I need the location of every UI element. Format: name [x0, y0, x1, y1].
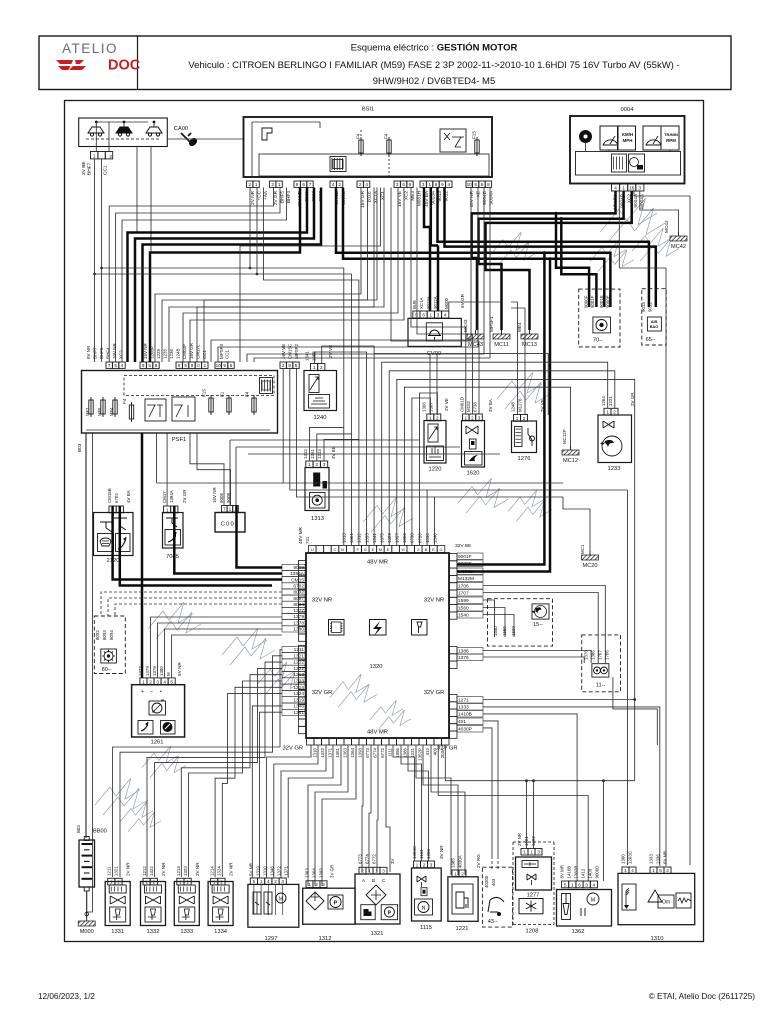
wire battery to ground: [86, 891, 88, 917]
cluster gauge icons: [600, 126, 618, 150]
svg-text:1: 1: [255, 182, 258, 187]
svg-text:2: 2: [153, 880, 156, 885]
svg-text:MC42: MC42: [664, 220, 669, 233]
wire bundle 40V BA to 65--: [438, 188, 649, 308]
svg-text:1706: 1706: [458, 584, 469, 590]
svg-text:1: 1: [110, 880, 113, 885]
svg-text:8: 8: [178, 363, 181, 368]
svg-text:1229: 1229: [156, 348, 161, 359]
fuse box PSF1: [82, 371, 278, 434]
svg-text:1384A: 1384A: [169, 490, 174, 503]
wire h353 to 548: [374, 354, 548, 415]
svg-text:1363: 1363: [342, 747, 347, 757]
svg-text:1: 1: [606, 410, 609, 415]
svg-text:1376: 1376: [458, 655, 469, 661]
svg-text:6738: 6738: [473, 402, 478, 412]
svg-text:1334: 1334: [214, 929, 228, 935]
svg-text:4: 4: [444, 313, 447, 318]
wire right bus 666: [665, 268, 667, 866]
svg-text:8092: 8092: [293, 590, 304, 596]
svg-text:MC12P: MC12P: [562, 429, 567, 444]
ignition switch CA00: [79, 118, 168, 147]
wire distribution 780 with junctions: [445, 745, 634, 781]
svg-text:2V NR: 2V NR: [126, 862, 131, 876]
svg-text:CA00: CA00: [174, 126, 188, 132]
diagram frame: [65, 101, 704, 942]
svg-text:403: 403: [491, 878, 496, 886]
svg-text:1393: 1393: [357, 747, 362, 757]
svg-text:6772: 6772: [380, 747, 385, 757]
svg-text:2: 2: [523, 416, 526, 421]
svg-text:6: 6: [422, 313, 425, 318]
svg-text:11--: 11--: [596, 683, 606, 689]
svg-text:1371: 1371: [327, 747, 332, 757]
svg-text:E: E: [387, 547, 390, 552]
svg-text:1412: 1412: [581, 868, 586, 878]
wires ECU to injectors: [113, 650, 282, 878]
svg-text:1203C: 1203C: [628, 851, 633, 864]
svg-text:1: 1: [166, 507, 169, 512]
svg-text:2: 2: [274, 879, 277, 884]
svg-text:1381: 1381: [293, 710, 304, 716]
svg-text:3V BA: 3V BA: [488, 399, 493, 412]
svg-text:1323: 1323: [293, 679, 304, 685]
svg-text:B03: B03: [76, 825, 81, 833]
svg-text:1321: 1321: [114, 866, 119, 876]
svg-text:9001F: 9001F: [590, 295, 595, 308]
ECU icons: [329, 620, 345, 636]
svg-text:6V GR: 6V GR: [460, 293, 465, 308]
svg-text:F4: F4: [356, 133, 361, 139]
svg-text:F4: F4: [122, 398, 127, 404]
svg-text:48V MR: 48V MR: [298, 526, 303, 544]
svg-text:6774: 6774: [372, 747, 377, 757]
svg-text:1261: 1261: [151, 740, 164, 746]
svg-text:9008: 9008: [293, 565, 304, 571]
svg-text:3: 3: [323, 462, 326, 467]
wire 9008 thick to C001: [237, 506, 283, 568]
svg-text:1540: 1540: [493, 626, 498, 636]
svg-text:1707: 1707: [458, 591, 469, 597]
PSF1 shunt: [260, 378, 273, 394]
svg-text:U: U: [311, 547, 314, 552]
wire mid nest long verticals: [426, 490, 428, 546]
svg-text:CC1: CC1: [103, 165, 109, 175]
wire right bus 627: [627, 490, 629, 865]
svg-text:2: 2: [320, 365, 323, 370]
svg-text:1310: 1310: [263, 866, 268, 876]
svg-text:1214: 1214: [210, 866, 215, 876]
svg-text:9000F: 9000F: [458, 561, 472, 567]
svg-text:16V VE: 16V VE: [281, 344, 286, 359]
svg-text:12/06/2023, 1/2: 12/06/2023, 1/2: [38, 992, 95, 1001]
svg-text:4: 4: [593, 882, 596, 887]
svg-text:3V NR: 3V NR: [439, 845, 444, 859]
svg-text:MPSF2: MPSF2: [294, 343, 299, 359]
alternator 1310: [618, 873, 695, 924]
svg-text:1385: 1385: [451, 858, 456, 868]
svg-text:F4: F4: [384, 133, 389, 139]
svg-text:2: 2: [613, 410, 616, 415]
svg-text:1366: 1366: [422, 402, 427, 412]
sensor 1240: [304, 371, 337, 411]
svg-text:8094: 8094: [109, 630, 114, 640]
svg-text:1367: 1367: [429, 402, 434, 412]
svg-text:MC42: MC42: [671, 244, 686, 250]
svg-text:1: 1: [622, 186, 625, 191]
svg-text:F15: F15: [202, 389, 207, 397]
svg-text:+: +: [141, 689, 144, 695]
wire 1384A thick to 7045: [174, 506, 282, 574]
wire CA00 to BSI: [167, 138, 243, 140]
svg-text:9013A: 9013A: [426, 296, 431, 309]
wire 6702 thick to 2120: [120, 506, 272, 586]
svg-text:10V NR: 10V NR: [112, 342, 117, 359]
wire mid distribution: [230, 439, 420, 441]
svg-text:3: 3: [478, 415, 481, 420]
svg-text:8: 8: [409, 182, 412, 187]
svg-text:1364: 1364: [350, 747, 355, 757]
svg-text:1377: 1377: [138, 666, 143, 676]
svg-text:4: 4: [631, 868, 634, 873]
wire long left verticals: [85, 433, 87, 838]
wire CM15 thick to 2120: [113, 506, 282, 580]
svg-text:1: 1: [652, 868, 655, 873]
relay 1276: [512, 421, 537, 453]
svg-text:B: B: [372, 878, 375, 883]
svg-text:5: 5: [295, 363, 298, 368]
svg-text:1363: 1363: [305, 868, 310, 878]
svg-text:CM01D: CM01D: [460, 397, 465, 412]
buzzer CV00: [408, 318, 461, 346]
fuse F15 BSI: [475, 140, 479, 153]
wire 1410B to 1362: [483, 714, 577, 881]
svg-text:2V VE: 2V VE: [540, 399, 545, 412]
svg-text:1560: 1560: [458, 606, 469, 612]
svg-text:8: 8: [487, 182, 490, 187]
svg-text:1212: 1212: [142, 866, 147, 876]
svg-text:MC1: MC1: [580, 544, 585, 554]
wires ECU bottom fan: [267, 745, 311, 878]
svg-text:9000D: 9000D: [595, 866, 600, 879]
svg-text:MPSF3: MPSF3: [219, 343, 224, 359]
svg-text:1: 1: [624, 868, 627, 873]
svg-text:1: 1: [454, 871, 457, 876]
svg-text:2: 2: [117, 880, 120, 885]
svg-text:1: 1: [428, 182, 431, 187]
svg-text:1410B: 1410B: [458, 712, 472, 718]
svg-text:1382R: 1382R: [574, 866, 579, 879]
svg-text:5: 5: [184, 363, 187, 368]
svg-text:XC2: XC2: [118, 350, 123, 359]
wire C001 up: [190, 433, 224, 506]
svg-text:1248: 1248: [511, 402, 516, 412]
svg-text:1111: 1111: [387, 747, 392, 756]
connector C001: [215, 513, 245, 533]
wire nest crossing: [240, 188, 381, 363]
compressor 1277: [516, 857, 552, 890]
svg-text:7: 7: [309, 182, 312, 187]
svg-text:B03: B03: [77, 443, 82, 452]
svg-text:1364: 1364: [312, 868, 317, 878]
svg-text:1: 1: [278, 182, 281, 187]
PSF1 inner dashed: [124, 376, 274, 396]
svg-text:1362: 1362: [572, 929, 585, 935]
wire bundle 9001E 9000E to ECU and 70--: [336, 188, 610, 308]
svg-text:16: 16: [629, 186, 635, 191]
wire PSF1 to 7045: [166, 433, 168, 506]
svg-text:0004: 0004: [621, 107, 635, 113]
wire 9013A to CV00: [437, 246, 440, 312]
svg-text:ATELIO: ATELIO: [62, 41, 118, 56]
svg-text:2V GR: 2V GR: [630, 392, 635, 406]
svg-text:1: 1: [465, 415, 468, 420]
svg-text:8V NR: 8V NR: [86, 345, 91, 359]
svg-text:1376: 1376: [584, 650, 589, 660]
key symbol: [181, 133, 191, 142]
svg-text:1599: 1599: [458, 598, 469, 604]
svg-text:–: –: [150, 689, 153, 695]
svg-text:1409: 1409: [588, 868, 593, 878]
ground MC42: [678, 232, 680, 236]
svg-text:2V VE: 2V VE: [328, 345, 333, 358]
svg-text:3: 3: [382, 869, 385, 874]
svg-text:1233: 1233: [608, 466, 621, 472]
svg-text:ME3: ME3: [410, 191, 415, 201]
wire CV00 M000: [449, 302, 502, 311]
svg-text:70--: 70--: [593, 338, 603, 344]
svg-text:16V GR: 16V GR: [360, 190, 365, 207]
svg-text:6: 6: [402, 182, 405, 187]
wire stub7 to right vertical: [397, 379, 635, 780]
svg-text:1346: 1346: [293, 704, 304, 710]
svg-text:401: 401: [458, 719, 466, 725]
svg-text:9012A: 9012A: [433, 296, 438, 309]
svg-text:9012: 9012: [648, 302, 653, 312]
svg-text:6702: 6702: [293, 584, 304, 590]
BSI1 shunt: [330, 157, 346, 172]
wire distribution 795: [438, 745, 588, 881]
svg-text:1550: 1550: [502, 626, 507, 636]
svg-text:1310: 1310: [312, 747, 317, 757]
wire 1233 pin2 via stub6: [389, 371, 615, 546]
svg-text:9000F: 9000F: [584, 295, 589, 308]
wire bundle 0004 to grounds: [472, 191, 616, 330]
svg-text:1379: 1379: [293, 614, 304, 620]
svg-text:CM03P: CM03P: [182, 344, 187, 359]
svg-text:H: H: [402, 547, 405, 552]
svg-text:412: 412: [425, 747, 430, 755]
svg-text:M: M: [166, 672, 171, 676]
svg-text:F1: F1: [220, 391, 225, 397]
svg-text:2: 2: [315, 882, 318, 887]
svg-text:KM/H: KM/H: [622, 132, 633, 137]
svg-text:CM15B: CM15B: [107, 488, 112, 503]
svg-text:1312: 1312: [319, 936, 332, 942]
svg-text:2: 2: [271, 182, 274, 187]
svg-text:F15: F15: [472, 131, 477, 139]
svg-text:XC1A: XC1A: [419, 297, 424, 309]
svg-text:1: 1: [313, 365, 316, 370]
svg-text:1319: 1319: [293, 697, 304, 703]
svg-text:203A: 203A: [440, 748, 445, 758]
svg-text:1271: 1271: [458, 698, 469, 704]
svg-text:5: 5: [564, 882, 567, 887]
svg-text:P: P: [388, 910, 392, 916]
svg-text:M004A: M004A: [640, 193, 645, 209]
fuse F4 PSF1 a: [129, 405, 133, 419]
svg-text:32V GR: 32V GR: [424, 690, 445, 696]
svg-text:16V NR: 16V NR: [143, 342, 148, 359]
svg-text:1: 1: [213, 880, 216, 885]
svg-text:1707: 1707: [598, 650, 603, 660]
svg-text:2: 2: [220, 880, 223, 885]
svg-text:3V BE: 3V BE: [331, 446, 336, 459]
svg-text:8V MR: 8V MR: [560, 865, 565, 878]
svg-text:1332: 1332: [147, 929, 160, 935]
svg-text:8093: 8093: [102, 630, 107, 640]
svg-text:G: G: [439, 547, 442, 552]
svg-text:1221: 1221: [608, 396, 613, 406]
svg-text:40200: 40200: [484, 875, 489, 888]
wires ECU to 1297: [252, 706, 282, 878]
engine ECU 1320: [306, 553, 449, 738]
wire 1233 pin1 via stub5: [382, 362, 608, 545]
ECU right pin strip: [450, 554, 458, 561]
svg-text:•: •: [160, 689, 162, 695]
svg-text:1361: 1361: [335, 747, 340, 757]
svg-text:1: 1: [308, 882, 311, 887]
svg-text:2: 2: [361, 869, 364, 874]
svg-text:32V NR: 32V NR: [424, 598, 444, 604]
fuse MF7: [89, 400, 93, 414]
CV00 pins: [413, 311, 420, 318]
svg-text:7: 7: [223, 507, 226, 512]
svg-text:2: 2: [461, 871, 464, 876]
svg-text:1410B: 1410B: [567, 866, 572, 879]
svg-text:7: 7: [108, 363, 111, 368]
svg-text:4: 4: [332, 182, 335, 187]
svg-text:1377: 1377: [293, 608, 304, 614]
svg-text:TR/MIN: TR/MIN: [664, 132, 678, 137]
svg-text:2: 2: [359, 182, 362, 187]
svg-text:1386: 1386: [402, 747, 407, 757]
svg-text:1356: 1356: [426, 849, 431, 859]
injector 1332: [141, 882, 166, 926]
snowflake 1208: [519, 899, 543, 914]
svg-text:9: 9: [142, 363, 145, 368]
wires ECU right to 15--: [483, 600, 495, 637]
svg-text:1236: 1236: [169, 348, 174, 359]
svg-text:1212: 1212: [293, 660, 304, 666]
svg-text:AIR: AIR: [651, 320, 658, 324]
svg-text:BHF7: BHF7: [92, 347, 97, 359]
wire 1313 to ECU: [310, 427, 344, 461]
wire stub8 to MC12: [404, 387, 570, 545]
sensor 1312: [303, 888, 355, 924]
svg-text:4: 4: [267, 879, 270, 884]
injector 1334: [208, 882, 233, 926]
ECU bottom pin strip: [307, 739, 315, 746]
svg-text:1324: 1324: [293, 691, 304, 697]
wire from CA00 down: [95, 128, 97, 152]
cluster inner box: [576, 152, 681, 176]
wires cluster lamps: [585, 143, 587, 152]
svg-text:B11E: B11E: [366, 191, 371, 202]
svg-text:MF5: MF5: [97, 407, 102, 416]
svg-text:© ETAI, Atelio Doc (2611725): © ETAI, Atelio Doc (2611725): [649, 992, 756, 1001]
svg-text:BHF5: BHF5: [99, 347, 104, 359]
svg-text:48V MR: 48V MR: [367, 730, 388, 736]
svg-text:8: 8: [155, 363, 158, 368]
svg-text:1: 1: [229, 507, 232, 512]
svg-text:32V BE: 32V BE: [455, 543, 471, 549]
svg-text:2V GR: 2V GR: [182, 489, 187, 503]
svg-text:1313: 1313: [311, 516, 324, 522]
wire BSI to ECU stub0: [102, 268, 344, 546]
svg-text:E: E: [372, 547, 375, 552]
svg-text:1277: 1277: [527, 893, 539, 899]
svg-text:B: B: [425, 547, 428, 552]
svg-text:1220: 1220: [429, 467, 442, 473]
fuse F4 BSI: [359, 140, 363, 153]
svg-text:1386: 1386: [458, 649, 469, 655]
svg-text:8094: 8094: [293, 602, 304, 608]
compressor 1277 pins: [521, 849, 528, 856]
svg-text:8092: 8092: [95, 630, 100, 640]
svg-text:1356: 1356: [395, 747, 400, 757]
wire thick PSF1 to 1261: [141, 433, 144, 678]
svg-text:8: 8: [288, 363, 291, 368]
component 15-- dashed: [488, 599, 553, 646]
svg-text:MC11: MC11: [494, 342, 509, 348]
svg-text:3: 3: [422, 182, 425, 187]
svg-text:3: 3: [430, 862, 433, 867]
wire 1220 to ECU: [412, 398, 431, 546]
svg-text:5V NR: 5V NR: [249, 863, 254, 876]
svg-text:5: 5: [253, 879, 256, 884]
svg-text:1333: 1333: [649, 854, 654, 864]
svg-text:1372: 1372: [277, 866, 282, 876]
svg-text:32V NR: 32V NR: [312, 598, 332, 604]
svg-text:3: 3: [156, 679, 159, 684]
svg-text:731: 731: [305, 536, 310, 544]
svg-text:16V VE: 16V VE: [397, 191, 402, 207]
svg-text:1333: 1333: [458, 705, 469, 711]
svg-text:B: B: [341, 547, 344, 552]
svg-text:6773: 6773: [365, 747, 370, 757]
svg-text:1310: 1310: [651, 936, 664, 942]
svg-text:6: 6: [578, 882, 581, 887]
svg-text:9004A: 9004A: [488, 190, 493, 204]
watermark zigzag: [600, 198, 657, 232]
svg-text:BAG: BAG: [650, 325, 658, 329]
svg-text:PSF1: PSF1: [172, 437, 187, 443]
injector 1331: [105, 882, 130, 926]
svg-text:BB00: BB00: [93, 829, 107, 835]
wires ECU right to 11--: [483, 586, 605, 664]
svg-text:3: 3: [639, 186, 642, 191]
fuse F1: [227, 398, 231, 412]
svg-text:6774: 6774: [365, 854, 370, 864]
wire 11 continuation: [613, 692, 657, 745]
valve fan 1233: [598, 415, 632, 463]
svg-text:9HW/9H02 / DV6BTED4- M5: 9HW/9H02 / DV6BTED4- M5: [373, 76, 495, 87]
svg-text:1: 1: [142, 679, 145, 684]
svg-text:16V NR: 16V NR: [212, 486, 217, 503]
svg-text:9: 9: [223, 363, 226, 368]
svg-text:2: 2: [316, 462, 319, 467]
